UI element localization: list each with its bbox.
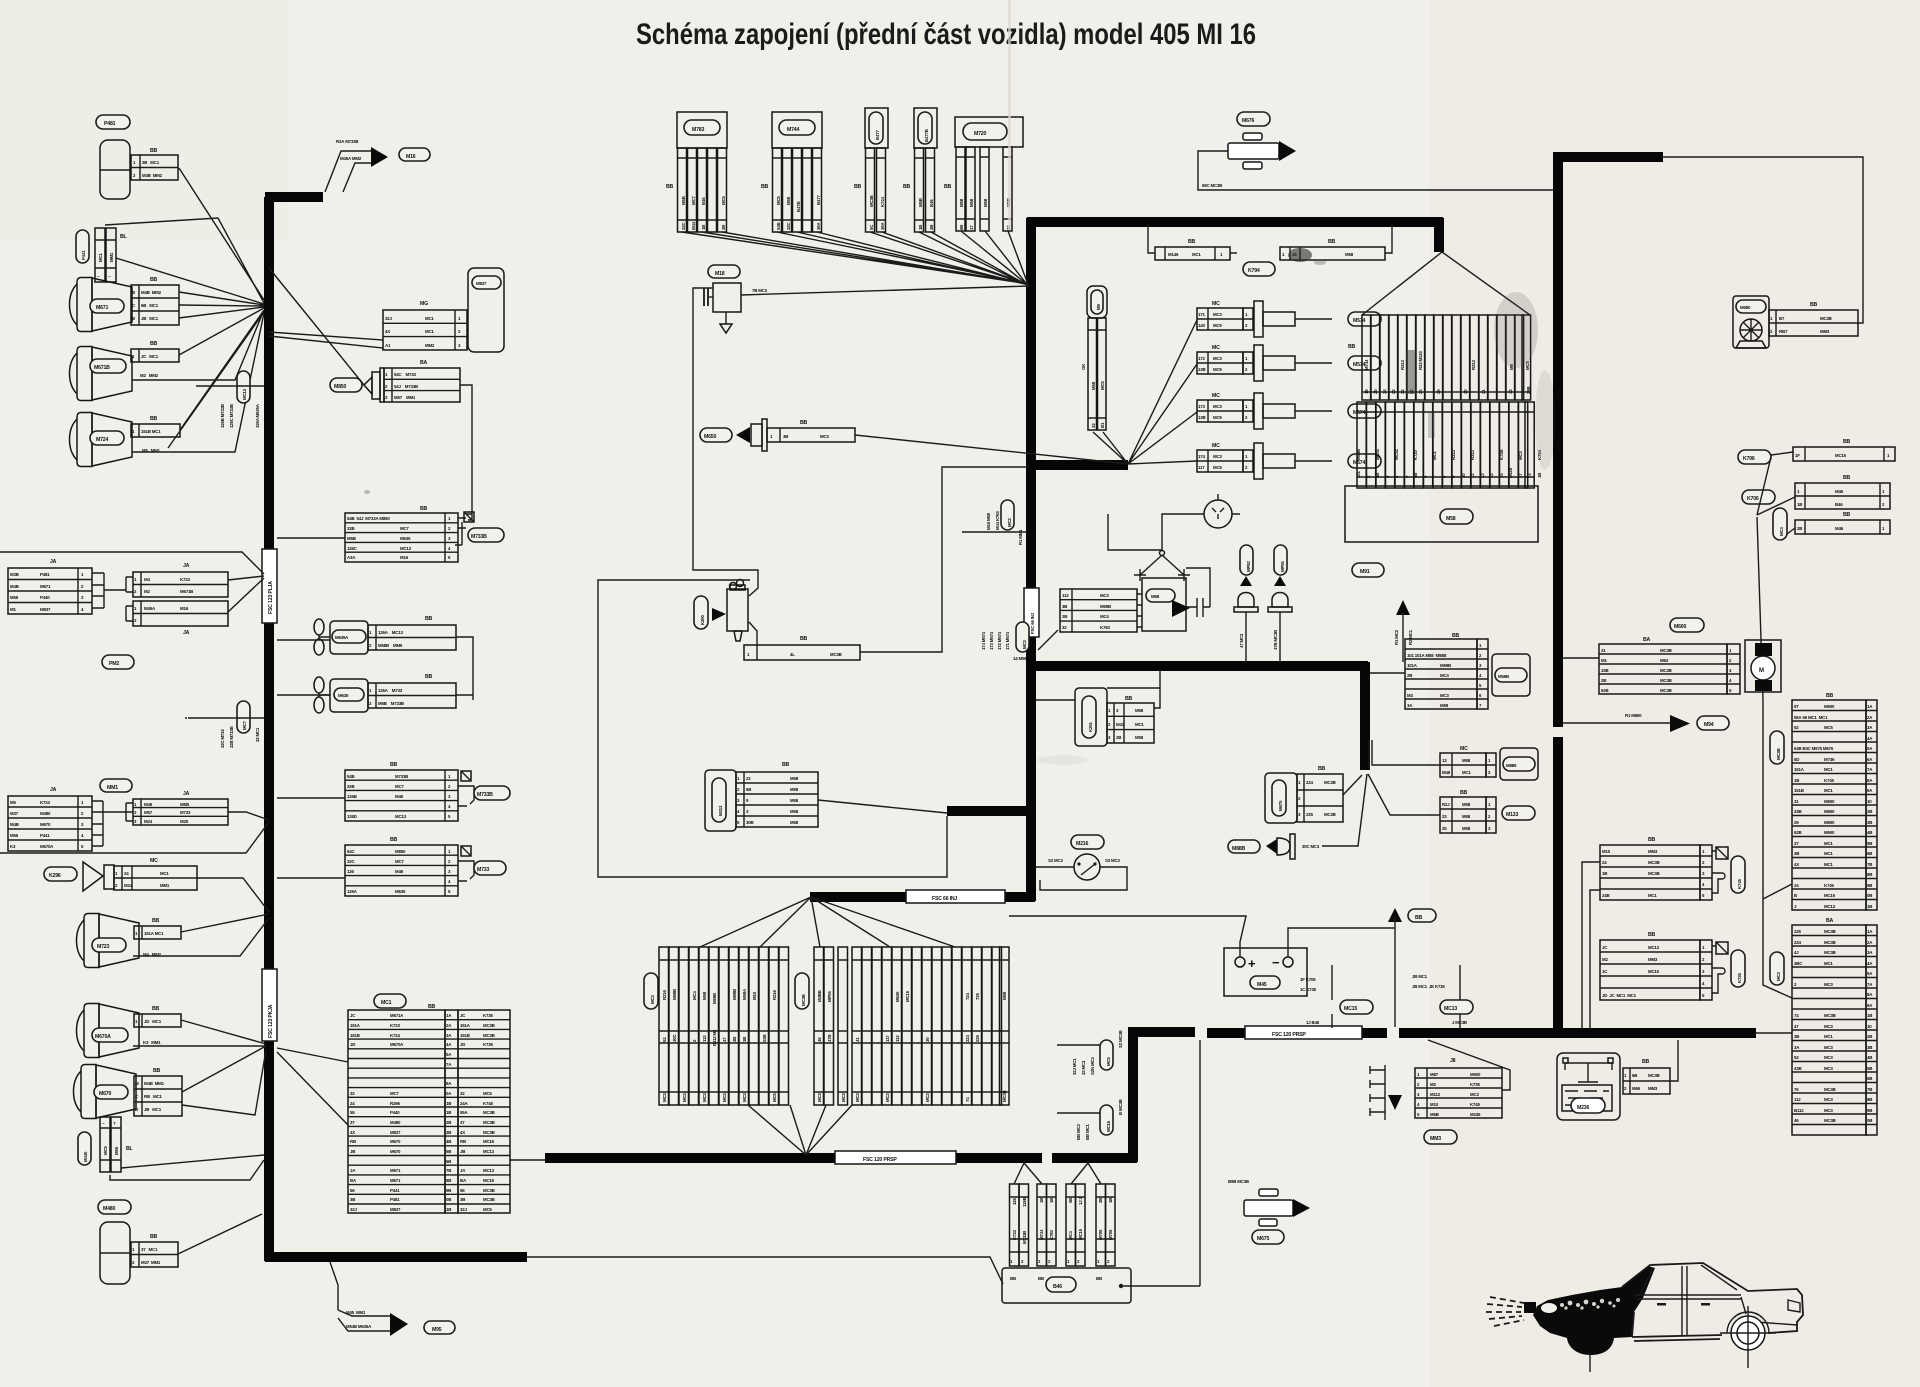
svg-text:M46: M46 xyxy=(395,794,404,799)
svg-text:MC1: MC1 xyxy=(1824,767,1833,772)
svg-text:M3BB: M3BB xyxy=(817,990,822,1002)
svg-text:S2N MC3: S2N MC3 xyxy=(1090,1057,1095,1075)
svg-text:13B: 13B xyxy=(1198,367,1205,372)
svg-text:3B: 3B xyxy=(1794,851,1799,856)
svg-text:MC1: MC1 xyxy=(425,316,434,321)
svg-text:101: 101 xyxy=(1356,471,1361,478)
wire box B to bus xyxy=(277,797,345,799)
fuse M574 row1 xyxy=(1197,301,1381,337)
svg-text:4B: 4B xyxy=(1867,830,1872,835)
svg-text:MM1: MM1 xyxy=(107,785,118,791)
wire M480 to bus xyxy=(178,1214,262,1254)
svg-text:MC16: MC16 xyxy=(1824,893,1836,898)
svg-text:112: 112 xyxy=(1062,593,1069,598)
svg-text:K300: K300 xyxy=(700,615,705,625)
svg-text:K735: K735 xyxy=(1470,1082,1480,1087)
svg-text:224: 224 xyxy=(1306,780,1313,785)
svg-text:17: 17 xyxy=(969,225,974,230)
svg-text:BB: BB xyxy=(150,148,158,154)
svg-text:1B: 1B xyxy=(1797,502,1802,507)
svg-text:BA: BA xyxy=(1826,918,1834,924)
svg-text:24: 24 xyxy=(350,1101,355,1106)
svg-text:3B: 3B xyxy=(742,1037,747,1042)
svg-text:M4B: M4B xyxy=(10,822,19,827)
node MC3B label tall1 xyxy=(1770,731,1784,764)
svg-text:MC1: MC1 xyxy=(1824,961,1833,966)
node MC7 label xyxy=(237,701,250,733)
svg-text:B112: B112 xyxy=(1794,1108,1804,1113)
wire down arrow xyxy=(1388,1095,1402,1110)
svg-text:B: B xyxy=(132,316,135,321)
svg-text:PM2: PM2 xyxy=(109,661,119,667)
svg-text:M670A: M670A xyxy=(390,1042,404,1047)
wire with labels 126B xyxy=(196,385,264,387)
comb group 3 xyxy=(852,947,1009,1105)
svg-text:BB: BB xyxy=(425,616,433,622)
svg-text:3B: 3B xyxy=(446,1130,451,1135)
svg-text:M58: M58 xyxy=(1440,703,1449,708)
svg-text:−: − xyxy=(1272,955,1280,970)
svg-text:M91: M91 xyxy=(1360,569,1370,575)
svg-text:M670: M670 xyxy=(390,1139,401,1144)
svg-text:M58: M58 xyxy=(790,809,799,814)
lamp MP92 xyxy=(1240,545,1253,575)
connector table M600 xyxy=(1670,618,1704,632)
lamp M723 xyxy=(77,914,140,968)
node M480 label xyxy=(98,1200,131,1214)
wire: left stub at y811 xyxy=(947,806,1035,816)
svg-text:K723: K723 xyxy=(180,577,190,582)
svg-text:M45: M45 xyxy=(1257,982,1267,988)
svg-text:1B: 1B xyxy=(1867,904,1872,909)
wire S2 MC3B labels at bus corner xyxy=(1100,1040,1113,1070)
svg-text:MC15: MC15 xyxy=(1648,969,1660,974)
connector B477B xyxy=(903,108,937,232)
svg-text:MC3B: MC3B xyxy=(1660,688,1672,693)
svg-text:MC1: MC1 xyxy=(1824,841,1833,846)
svg-text:M600: M600 xyxy=(1674,624,1686,630)
svg-text:RB: RB xyxy=(350,1139,356,1144)
washer pump M236 xyxy=(1557,1040,1678,1120)
svg-text:725: 725 xyxy=(975,993,980,1000)
svg-text:2B: 2B xyxy=(721,225,726,230)
svg-text:M65: M65 xyxy=(1632,1086,1641,1091)
svg-text:MC5: MC5 xyxy=(776,196,781,205)
connector tall table 2 xyxy=(1756,918,1877,1135)
svg-text:2B: 2B xyxy=(1116,735,1121,740)
svg-text:M2 MM2: M2 MM2 xyxy=(140,373,159,378)
svg-text:225: 225 xyxy=(975,1035,980,1042)
connector M837 body xyxy=(468,268,504,352)
svg-text:MP55: MP55 xyxy=(1280,561,1285,572)
svg-text:M733B: M733B xyxy=(1022,1231,1027,1244)
svg-text:JA: JA xyxy=(183,563,190,569)
svg-text:M58A: M58A xyxy=(742,988,747,1000)
svg-text:30: 30 xyxy=(925,1037,930,1042)
svg-text:MC: MC xyxy=(1212,393,1220,399)
svg-text:P481: P481 xyxy=(104,121,116,127)
fan M635A xyxy=(314,619,330,655)
svg-text:M574: M574 xyxy=(1353,410,1365,416)
svg-text:151A: 151A xyxy=(350,1023,361,1028)
svg-text:K735: K735 xyxy=(483,1042,493,1047)
connector M889 xyxy=(1369,740,1538,780)
wire: bottom bus right portion xyxy=(1399,1028,1756,1038)
svg-text:K72B: K72B xyxy=(1499,450,1504,460)
fuse M574 row2 xyxy=(1197,345,1381,381)
svg-text:8B: 8B xyxy=(446,1178,451,1183)
node: FSC 66 INJ label vertical xyxy=(1024,588,1039,637)
svg-text:MC13: MC13 xyxy=(483,1168,495,1173)
connector K745 xyxy=(1582,837,1745,1028)
svg-text:BB: BB xyxy=(150,1234,158,1240)
svg-text:M744: M744 xyxy=(1364,359,1369,370)
svg-text:P441: P441 xyxy=(390,1188,400,1193)
ignition switch M216 xyxy=(1071,835,1104,849)
svg-text:JB MC1: JB MC1 xyxy=(144,1107,162,1112)
svg-text:JD MC1: JD MC1 xyxy=(144,1019,162,1024)
svg-text:M88B: M88B xyxy=(732,989,737,1000)
svg-text:MC3B: MC3B xyxy=(1824,1118,1836,1123)
svg-text:29: 29 xyxy=(1794,820,1799,825)
svg-text:6B MC1: 6B MC1 xyxy=(141,303,159,308)
svg-text:113: 113 xyxy=(895,1035,900,1042)
svg-text:47B MC3B: 47B MC3B xyxy=(1273,630,1278,650)
svg-text:BB MC1: BB MC1 xyxy=(1085,1124,1090,1140)
wire to M16 arrow xyxy=(325,151,371,192)
svg-text:M724: M724 xyxy=(96,437,108,443)
svg-text:MC7: MC7 xyxy=(691,196,696,205)
svg-text:K733: K733 xyxy=(1012,1230,1017,1240)
svg-text:FSC 66 INJ: FSC 66 INJ xyxy=(932,896,957,902)
svg-text:M58: M58 xyxy=(790,820,799,825)
svg-text:1J B46: 1J B46 xyxy=(1306,1020,1320,1025)
svg-text:M635: M635 xyxy=(400,536,411,541)
svg-text:126C: 126C xyxy=(347,546,358,551)
svg-text:M2: M2 xyxy=(1430,1082,1436,1087)
node: FSC 66 INJ label horizontal xyxy=(906,890,1005,903)
wire: bottom bus corner piece xyxy=(960,1027,1195,1162)
svg-text:MC5: MC5 xyxy=(1100,381,1105,390)
svg-text:47B: 47B xyxy=(827,1035,832,1042)
svg-text:6B: 6B xyxy=(1632,1073,1637,1078)
svg-text:M49: M49 xyxy=(1442,770,1451,775)
svg-text:52: 52 xyxy=(1794,725,1799,730)
svg-text:R3A M733B: R3A M733B xyxy=(336,139,358,144)
svg-text:34: 34 xyxy=(1382,389,1387,394)
svg-text:46: 46 xyxy=(817,1037,822,1042)
svg-text:BB: BB xyxy=(428,1004,436,1010)
svg-text:M837: M837 xyxy=(390,1207,401,1212)
svg-text:MC7: MC7 xyxy=(400,526,409,531)
svg-text:22: 22 xyxy=(746,776,751,781)
svg-text:10: 10 xyxy=(1461,473,1466,478)
svg-text:32: 32 xyxy=(350,1091,355,1096)
svg-text:RB7: RB7 xyxy=(1779,329,1788,334)
svg-text:M24: M24 xyxy=(144,819,153,824)
svg-text:32J: 32J xyxy=(350,1207,357,1212)
svg-text:56: 56 xyxy=(350,1188,355,1193)
svg-text:24: 24 xyxy=(124,871,129,876)
svg-text:M720: M720 xyxy=(974,131,986,137)
svg-text:MC3B: MC3B xyxy=(1660,678,1672,683)
svg-text:M440: M440 xyxy=(83,1151,88,1162)
svg-text:M4B MM1: M4B MM1 xyxy=(144,1081,165,1086)
fuel injector K300 xyxy=(694,596,708,629)
svg-text:126A M635A: 126A M635A xyxy=(255,403,260,428)
wire to M95 arrow xyxy=(330,1262,390,1331)
svg-text:MC: MC xyxy=(150,858,158,864)
svg-text:MM3: MM3 xyxy=(1430,1136,1441,1142)
connector K735 xyxy=(1590,932,1745,1028)
svg-text:M59B: M59B xyxy=(1100,604,1111,609)
svg-text:P441: P441 xyxy=(40,833,50,838)
svg-text:MM1: MM1 xyxy=(160,883,170,888)
svg-text:M5B M733B: M5B M733B xyxy=(378,701,404,706)
node: FSC 120 PRSP label left xyxy=(835,1151,956,1164)
title xyxy=(636,18,1256,51)
svg-text:24: 24 xyxy=(1794,883,1799,888)
svg-text:112: 112 xyxy=(702,1035,707,1042)
wires lamps to bus xyxy=(105,168,264,452)
node M16 label xyxy=(399,148,430,161)
svg-text:B46: B46 xyxy=(1835,502,1843,507)
svg-text:56: 56 xyxy=(460,1188,465,1193)
arrow M94 xyxy=(1563,722,1670,724)
svg-text:M16 M58: M16 M58 xyxy=(986,512,991,530)
svg-text:M744: M744 xyxy=(1039,1229,1044,1240)
svg-text:32C M733: 32C M733 xyxy=(220,729,225,748)
svg-text:B46: B46 xyxy=(1053,1284,1062,1290)
svg-text:MC13: MC13 xyxy=(242,388,247,400)
svg-text:M744: M744 xyxy=(787,127,799,133)
svg-text:MC: MC xyxy=(1212,345,1220,351)
svg-text:A1: A1 xyxy=(385,343,391,348)
svg-text:33: 33 xyxy=(1508,389,1513,394)
connector P481 pins xyxy=(131,155,178,180)
svg-text:M236: M236 xyxy=(1470,1112,1481,1117)
wires fan point xyxy=(1093,320,1197,464)
connector M133 xyxy=(1368,774,1535,833)
svg-text:K745: K745 xyxy=(1737,879,1742,889)
svg-text:MC7: MC7 xyxy=(242,721,247,730)
svg-text:M58: M58 xyxy=(1462,758,1471,763)
svg-text:M680: M680 xyxy=(1740,305,1751,310)
svg-text:K296: K296 xyxy=(49,873,61,879)
svg-text:6B: 6B xyxy=(1867,1076,1872,1081)
svg-text:MC1: MC1 xyxy=(1824,851,1833,856)
svg-text:Schéma zapojení (přední část v: Schéma zapojení (přední část vozidla) mo… xyxy=(636,18,1256,51)
lamp M88B xyxy=(1228,840,1260,853)
svg-text:FSC 123 PKJA: FSC 123 PKJA xyxy=(268,1004,274,1038)
svg-text:2B: 2B xyxy=(1797,526,1802,531)
svg-text:BB: BB xyxy=(1415,915,1423,921)
svg-text:MC5: MC5 xyxy=(1106,1057,1111,1066)
central comb lower tier xyxy=(1356,402,1542,488)
svg-text:MC3B: MC3B xyxy=(1776,748,1781,760)
svg-text:171: 171 xyxy=(1198,312,1205,317)
svg-text:MC1: MC1 xyxy=(1824,862,1833,867)
svg-text:24: 24 xyxy=(1418,389,1423,394)
svg-text:M58: M58 xyxy=(1446,516,1456,522)
svg-text:MC13: MC13 xyxy=(395,814,407,819)
svg-text:4X: 4X xyxy=(350,1130,355,1135)
svg-text:MC13: MC13 xyxy=(1444,1006,1457,1012)
svg-text:M58: M58 xyxy=(969,198,974,207)
component M18 xyxy=(713,283,741,312)
svg-text:MC1: MC1 xyxy=(1432,451,1437,460)
svg-text:BB: BB xyxy=(150,341,158,347)
svg-text:74: 74 xyxy=(1794,1013,1799,1018)
svg-text:BB: BB xyxy=(666,184,674,190)
svg-text:M88B: M88B xyxy=(672,989,677,1000)
svg-text:54C M733: 54C M733 xyxy=(394,372,416,377)
svg-text:K735: K735 xyxy=(483,1013,493,1018)
svg-text:B1: B1 xyxy=(1100,422,1105,428)
svg-text:4X: 4X xyxy=(460,1130,465,1135)
svg-text:K706: K706 xyxy=(1743,456,1755,462)
svg-text:MC16: MC16 xyxy=(1106,1120,1111,1132)
svg-text:4B: 4B xyxy=(446,1139,451,1144)
lamp M670A xyxy=(77,1004,140,1058)
svg-text:MC1: MC1 xyxy=(98,253,103,262)
svg-text:BB: BB xyxy=(761,184,769,190)
svg-text:1B: 1B xyxy=(918,225,923,230)
svg-text:K251: K251 xyxy=(1088,722,1093,732)
svg-text:3B: 3B xyxy=(783,434,788,439)
svg-text:1B: 1B xyxy=(1794,778,1799,783)
wire bus to M600 xyxy=(1563,657,1599,659)
svg-text:3B: 3B xyxy=(350,1197,355,1202)
svg-text:BB: BB xyxy=(782,762,790,768)
svg-text:224: 224 xyxy=(1794,940,1801,945)
connector M723 pins xyxy=(134,926,181,939)
svg-text:M6B: M6B xyxy=(1430,1112,1439,1117)
wire M676 to ring xyxy=(1198,151,1553,190)
svg-text:BB: BB xyxy=(152,918,160,924)
svg-text:M4B MM2: M4B MM2 xyxy=(141,290,162,295)
svg-text:MM3: MM3 xyxy=(1648,957,1658,962)
node M91 label xyxy=(1352,563,1384,577)
svg-text:MC3: MC3 xyxy=(1824,1097,1833,1102)
svg-text:36A: 36A xyxy=(880,222,885,230)
wire box A to bus xyxy=(277,537,345,539)
svg-text:46: 46 xyxy=(1794,1118,1799,1123)
svg-text:MC3B: MC3B xyxy=(1002,1090,1007,1102)
svg-text:MC3: MC3 xyxy=(1022,640,1027,649)
starter motor symbol xyxy=(1745,640,1781,692)
svg-text:2B: 2B xyxy=(1867,1034,1872,1039)
svg-text:M25: M25 xyxy=(180,819,189,824)
svg-text:RB MC1: RB MC1 xyxy=(144,1094,162,1099)
svg-text:R2 MC1: R2 MC1 xyxy=(1408,629,1413,645)
horn K296 xyxy=(44,867,77,881)
svg-text:9B: 9B xyxy=(446,1188,451,1193)
svg-text:MC3: MC3 xyxy=(925,1093,930,1102)
svg-text:7B MC3: 7B MC3 xyxy=(752,288,768,293)
svg-text:MC3: MC3 xyxy=(1824,982,1833,987)
wires M635 xyxy=(277,694,473,696)
svg-text:MC3: MC3 xyxy=(885,1093,890,1102)
svg-text:MC16: MC16 xyxy=(483,1139,495,1144)
connector table MC1 big xyxy=(348,1010,510,1213)
svg-text:M671B: M671B xyxy=(180,589,193,594)
svg-text:JA: JA xyxy=(183,791,190,797)
connector P441 strips xyxy=(95,228,105,282)
svg-text:BB: BB xyxy=(1328,239,1336,245)
connector B477 xyxy=(854,108,888,232)
svg-text:2B: 2B xyxy=(1098,1198,1103,1203)
svg-text:MC3: MC3 xyxy=(1824,1108,1833,1113)
svg-text:32C: 32C xyxy=(786,222,791,230)
svg-text:1B: 1B xyxy=(1867,1013,1872,1018)
fan M635 xyxy=(314,677,330,713)
svg-text:151A: 151A xyxy=(460,1023,471,1028)
svg-text:3B: 3B xyxy=(460,1197,465,1202)
svg-text:BB: BB xyxy=(150,277,158,283)
svg-text:151B: 151B xyxy=(1794,788,1804,793)
svg-text:MC5: MC5 xyxy=(1213,367,1222,372)
svg-text:M37: M37 xyxy=(10,811,19,816)
svg-text:JA: JA xyxy=(50,787,57,793)
svg-text:MC51: MC51 xyxy=(1375,448,1380,460)
svg-text:5B: 5B xyxy=(1867,1066,1872,1071)
connector tall table 1 xyxy=(1763,693,1877,910)
svg-text:M112: M112 xyxy=(1430,1092,1441,1097)
fuse M676 xyxy=(1237,112,1270,126)
svg-text:B46: B46 xyxy=(929,199,934,207)
svg-text:BB: BB xyxy=(1642,1059,1650,1065)
svg-text:M16: M16 xyxy=(400,555,409,560)
svg-text:M670: M670 xyxy=(40,822,51,827)
svg-text:10: 10 xyxy=(1867,799,1872,804)
svg-text:2B: 2B xyxy=(1867,809,1872,814)
svg-text:M58: M58 xyxy=(1002,991,1007,1000)
svg-text:6B: 6B xyxy=(1867,851,1872,856)
svg-text:54B: 54B xyxy=(776,223,781,230)
svg-text:MC3B: MC3B xyxy=(483,1130,495,1135)
fuse M574 row3 xyxy=(1197,393,1381,429)
svg-text:MC1: MC1 xyxy=(160,871,169,876)
node K706 labels xyxy=(1738,450,1771,464)
svg-text:M46: M46 xyxy=(1835,526,1844,531)
svg-text:MC3: MC3 xyxy=(1213,404,1222,409)
wire distributor to coil xyxy=(1162,514,1196,550)
connector M480 pins xyxy=(131,1242,178,1267)
svg-text:MC3B: MC3B xyxy=(830,652,842,657)
wire M650 to fan point xyxy=(855,435,1128,464)
svg-text:174 M574: 174 M574 xyxy=(981,631,986,650)
svg-text:112: 112 xyxy=(1794,1097,1801,1102)
svg-text:M58B: M58B xyxy=(1356,449,1361,460)
svg-text:MC3B: MC3B xyxy=(1648,1073,1660,1078)
svg-text:K745: K745 xyxy=(1470,1102,1480,1107)
svg-text:BB: BB xyxy=(1843,475,1851,481)
svg-text:S2 MC3: S2 MC3 xyxy=(1048,858,1063,863)
svg-text:MC3: MC3 xyxy=(1470,1092,1479,1097)
node PM2 label xyxy=(102,655,134,669)
wire K300 to bus xyxy=(860,467,1027,652)
connector M670 pins xyxy=(134,1076,182,1116)
svg-text:6B: 6B xyxy=(959,225,964,230)
wires lower tables to bus xyxy=(0,812,269,853)
connector M313 xyxy=(705,762,947,831)
connector P481 body xyxy=(100,140,130,199)
node M733 label C xyxy=(474,861,506,875)
svg-text:6D: 6D xyxy=(1794,757,1799,762)
svg-text:M43: M43 xyxy=(1116,722,1125,727)
svg-text:BB: BB xyxy=(390,837,398,843)
